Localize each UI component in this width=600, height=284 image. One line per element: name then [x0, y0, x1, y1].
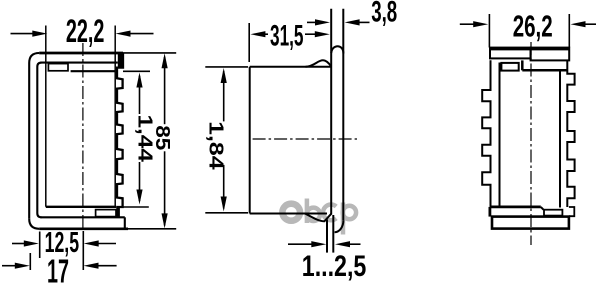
- left view bottom edge: [39, 228, 128, 231]
- dimension 58: [123, 53, 176, 229]
- right view right serrated wall: [567, 60, 574, 207]
- left view outer left edge: [28, 63, 30, 219]
- right view bottom upper bar left end: [488, 207, 491, 217]
- middle view horizontal centerline: [253, 138, 357, 140]
- dimension 22.2: [11, 33, 154, 35]
- left view opening top edge: [71, 70, 116, 72]
- left view vertical centerline: [82, 43, 84, 230]
- middle view top clip bump: [306, 60, 332, 67]
- right view cap bold top: [489, 47, 569, 50]
- dimension 1...2.5: [288, 243, 361, 245]
- svg-text:1...2,5: 1...2,5: [302, 250, 367, 283]
- sleeve rounded top: [331, 46, 343, 53]
- left view bottom slot: [96, 210, 116, 217]
- right view cap left piece: [490, 48, 531, 59]
- right view vertical centerline: [530, 42, 532, 245]
- left view right inner vertical / 22.2 right extension: [114, 26, 116, 207]
- watermark abcp: [282, 199, 356, 235]
- sleeve rounded bottom: [335, 220, 344, 232]
- right view cap right piece: [531, 48, 570, 61]
- left view top slot: [48, 64, 68, 71]
- right view below-cap right band left edge: [521, 60, 524, 70]
- svg-text:26,2: 26,2: [513, 9, 553, 44]
- dimension 31.5: [249, 23, 317, 62]
- left view top edge: [39, 52, 123, 55]
- middle view bottom claw: [305, 214, 331, 222]
- middle view top edge: [250, 66, 331, 68]
- left view top clip tooth (bold): [118, 53, 123, 68]
- panel rear face (top): [342, 9, 344, 221]
- right view tube right inner wall: [559, 70, 561, 207]
- left view inner vertical / 22.2 left extension: [45, 26, 47, 207]
- middle view left edge: [249, 67, 251, 214]
- left view bottom clip tooth (bold): [116, 207, 120, 217]
- dimension 26.2: [460, 14, 596, 48]
- right view bottom step: [541, 207, 544, 210]
- left view bottom flange right edge: [124, 217, 126, 229]
- dimension 3.8: [307, 21, 370, 23]
- svg-text:3,8: 3,8: [371, 0, 397, 29]
- dimension 48.1: [205, 67, 248, 213]
- left view inner bottom edge: [40, 216, 124, 218]
- panel front face: [330, 9, 332, 215]
- right view bottom right tab: [569, 207, 574, 216]
- svg-text:31,5: 31,5: [270, 20, 304, 53]
- left view opening bottom edge: [46, 206, 116, 208]
- panel lower rear face: [332, 215, 334, 253]
- right view left serrated wall: [482, 60, 490, 207]
- dimension 12.5: [12, 231, 116, 270]
- panel lower front face: [326, 220, 328, 253]
- left view bottom-left corner: [29, 219, 39, 229]
- right view bottom lower bar: [492, 217, 569, 229]
- right view cap divider: [530, 48, 532, 61]
- svg-text:17: 17: [47, 253, 69, 284]
- svg-text:1,44: 1,44: [133, 114, 155, 163]
- left view middle wall: [37, 63, 41, 218]
- left view inner top edge: [40, 62, 117, 64]
- svg-text:1,84: 1,84: [205, 121, 227, 171]
- right view below-cap right band bottom: [522, 69, 567, 72]
- right view below-cap left slot: [501, 63, 518, 71]
- right view tube left inner wall: [499, 63, 501, 207]
- left view outer profile top-left corner: [29, 53, 39, 63]
- left view serrated right edge: [116, 53, 123, 207]
- svg-text:22,2: 22,2: [66, 13, 105, 49]
- dimension 17: [2, 253, 117, 270]
- right view bottom slot: [544, 210, 562, 216]
- right view bottom upper bar top edge: [490, 205, 541, 208]
- middle view bottom edge: [250, 213, 327, 215]
- dimension 44.1: [120, 71, 150, 207]
